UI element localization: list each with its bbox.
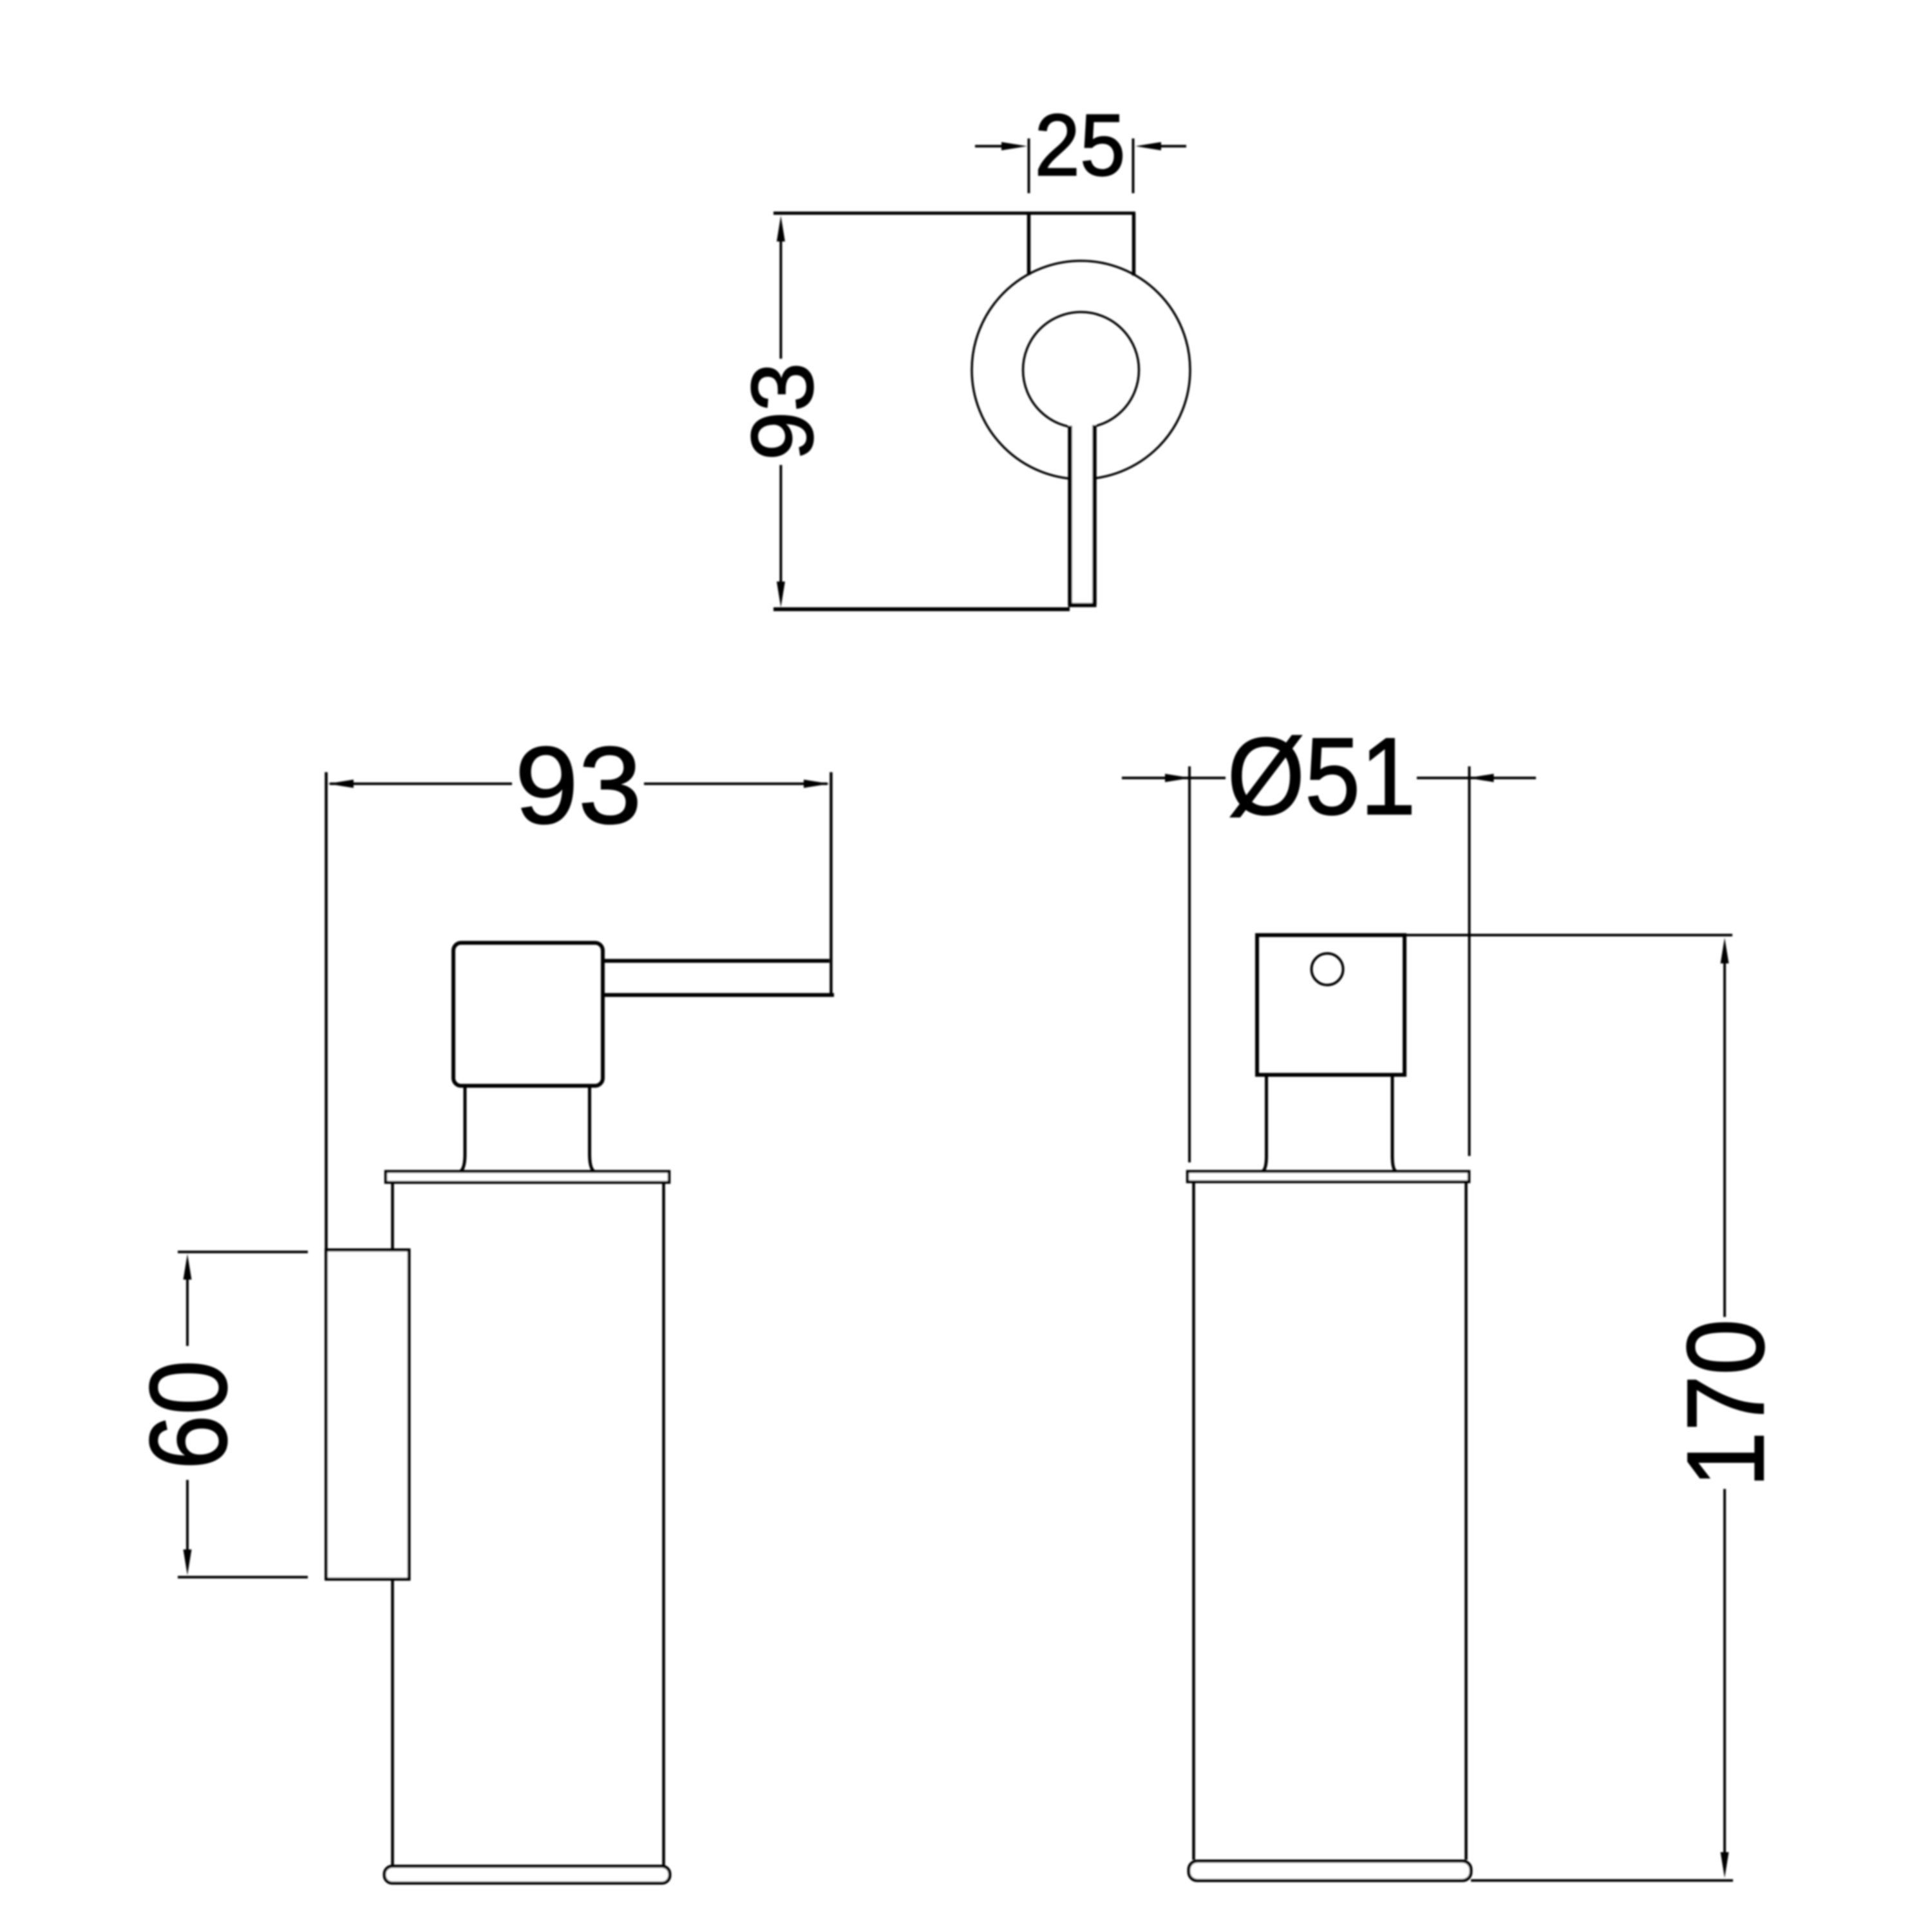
svg-text:60: 60 <box>128 1360 250 1470</box>
svg-text:93: 93 <box>515 724 642 847</box>
svg-text:170: 170 <box>1665 1319 1787 1488</box>
svg-text:93: 93 <box>734 363 831 460</box>
svg-text:25: 25 <box>1035 96 1126 194</box>
svg-text:Ø51: Ø51 <box>1227 715 1416 838</box>
